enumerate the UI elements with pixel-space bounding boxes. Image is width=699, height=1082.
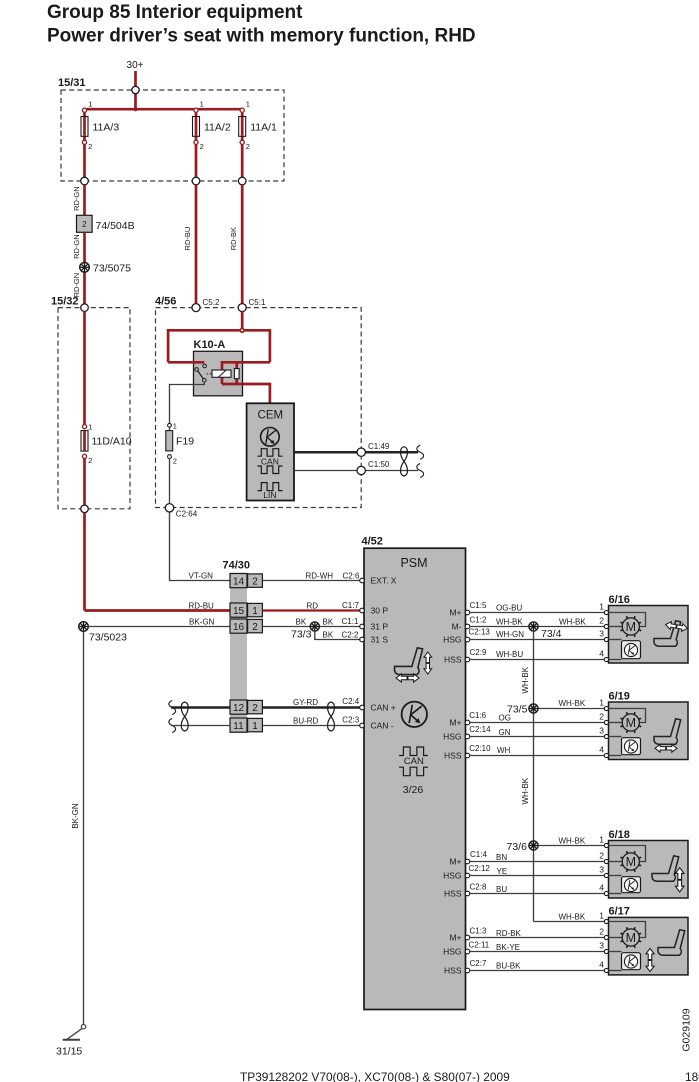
node 15/32 top edge	[81, 304, 89, 312]
svg-text:M-: M-	[452, 621, 462, 631]
seat motor module 6/16	[609, 606, 689, 664]
splice 73/5	[529, 704, 538, 713]
6/17 pin 3	[604, 949, 608, 953]
splice 73/5075	[80, 263, 90, 273]
svg-text:3: 3	[599, 940, 604, 950]
fuse F19	[166, 431, 173, 451]
wire BK-GN down to ground	[83, 631, 85, 1024]
connector 74/30 pin 12 mating square 2	[248, 700, 263, 713]
wire CAN- left	[171, 725, 230, 727]
wire red left branch down	[167, 329, 170, 362]
svg-text:31 P: 31 P	[371, 622, 389, 632]
svg-text:C2:64: C2:64	[176, 510, 198, 519]
svg-text:GN: GN	[499, 728, 511, 737]
wire OG-BU M+ to 6/16 pin1	[470, 612, 605, 614]
wire 30+ down to node	[134, 71, 137, 87]
PSM pin C1:7 30 P	[360, 608, 365, 613]
svg-text:73/3: 73/3	[291, 629, 312, 641]
6/18 pin 3	[604, 873, 608, 877]
svg-text:CAN: CAN	[404, 756, 424, 767]
wire GY-RD CAN+ right	[262, 706, 359, 709]
CEM LIN wave	[258, 483, 283, 491]
svg-text:RD-WH: RD-WH	[306, 572, 334, 581]
svg-text:GY-RD: GY-RD	[293, 698, 318, 707]
svg-text:WH-BU: WH-BU	[496, 650, 523, 659]
svg-text:16: 16	[233, 622, 245, 633]
wire RD inside 15/32	[83, 311, 86, 426]
6/17 pin 4	[604, 968, 608, 972]
6/18 pin 2	[604, 859, 608, 863]
svg-text:4: 4	[599, 648, 604, 658]
svg-text:1: 1	[599, 834, 604, 844]
svg-text:15: 15	[233, 606, 245, 617]
wire 6/19 pin4 to K box	[609, 755, 622, 757]
connector 74/30 pin 14 mating square 2	[248, 574, 263, 587]
svg-text:73/6: 73/6	[507, 841, 528, 853]
wire F19 pin1	[169, 427, 171, 430]
svg-text:VT-GN: VT-GN	[189, 572, 214, 581]
PSM pin C2:4 CAN +	[360, 705, 365, 710]
wire F19 to C2:64	[169, 459, 171, 504]
svg-text:RD-BK: RD-BK	[496, 929, 522, 938]
seat icon of 6/18	[652, 856, 679, 881]
svg-text:11D/A10: 11D/A10	[92, 436, 132, 448]
svg-text:WH: WH	[497, 746, 511, 755]
svg-text:C5:2: C5:2	[203, 298, 220, 307]
wire WH-BK 73/5 to 6/19 pin1	[538, 708, 604, 710]
svg-text:C1:6: C1:6	[469, 711, 486, 720]
splice 73/4	[529, 622, 538, 631]
wire 6/17 pin3 to K box	[609, 951, 622, 953]
svg-text:M: M	[626, 855, 636, 869]
splice 73/3	[310, 622, 319, 631]
svg-text:C1:1: C1:1	[342, 617, 359, 626]
svg-text:30+: 30+	[127, 60, 144, 71]
node C1:49	[357, 448, 365, 456]
svg-text:74/504B: 74/504B	[96, 220, 135, 232]
CEM CAN wave down	[258, 466, 283, 474]
junction on 4/56 bus	[240, 328, 244, 332]
svg-text:3: 3	[599, 725, 604, 735]
svg-text:BK: BK	[323, 631, 334, 640]
wire YE HSG to 6/18 pin3	[470, 875, 605, 877]
svg-text:4/56: 4/56	[155, 296, 176, 308]
wire RD-GN segment 1	[83, 185, 86, 216]
wire relay output to F19	[170, 382, 205, 424]
svg-text:2: 2	[200, 142, 204, 151]
svg-text:RD-BU: RD-BU	[189, 601, 215, 610]
connector 74/30 housing	[230, 573, 247, 733]
fuse 11D/A10	[81, 431, 88, 452]
svg-text:31 S: 31 S	[371, 635, 389, 645]
svg-text:C2:9: C2:9	[470, 648, 487, 657]
svg-text:HSG: HSG	[443, 946, 461, 956]
node C1:50	[357, 466, 365, 474]
svg-text:BU-RD: BU-RD	[293, 716, 319, 725]
wire red bus in 4/56	[168, 329, 270, 332]
relay coil	[212, 370, 231, 377]
svg-text:WH-BK: WH-BK	[521, 777, 530, 804]
wire RD-GN segment 3	[83, 272, 86, 304]
wire 6/16 pin4 to K box	[609, 659, 622, 661]
wire BK-YE HSG to 6/17 pin3	[470, 951, 605, 953]
svg-text:1: 1	[88, 100, 92, 109]
svg-text:BK-YE: BK-YE	[496, 943, 520, 952]
twisted pair right	[328, 702, 335, 731]
connector 74/30 pin 12 cell	[230, 700, 247, 714]
node at 15/31 top edge	[132, 86, 139, 93]
seat motor module 6/18	[609, 841, 689, 899]
adjust arrow of 6/17	[646, 948, 654, 971]
PSM K symbol	[402, 702, 427, 727]
svg-text:OG-BU: OG-BU	[496, 603, 522, 612]
motor circle	[622, 714, 639, 731]
svg-text:BN: BN	[496, 853, 507, 862]
relay K10-A	[194, 351, 243, 396]
wire 6/18 pin4 to K box	[609, 893, 622, 895]
connector 74/30 pin 14 cell	[230, 574, 247, 588]
svg-text:2: 2	[599, 711, 604, 721]
wire RD-BK M+ to 6/17 pin2	[470, 937, 605, 939]
K unit of 6/19	[622, 738, 641, 755]
svg-text:4: 4	[599, 744, 604, 754]
wire CEM CAN high C1:49	[294, 451, 418, 454]
svg-text:HSS: HSS	[444, 965, 462, 975]
twisted pair symbol right of CEM	[401, 447, 408, 476]
svg-text:C1:4: C1:4	[470, 850, 487, 859]
svg-text:WH-BK: WH-BK	[559, 836, 586, 845]
wire BK branch to 31S	[315, 631, 360, 639]
6/16 pin 2	[604, 624, 608, 628]
svg-text:1: 1	[252, 606, 258, 617]
svg-text:2: 2	[252, 622, 258, 633]
svg-text:HSS: HSS	[444, 654, 462, 664]
svg-text:C2:8: C2:8	[470, 883, 487, 892]
relay switch fixed contact pin	[203, 364, 207, 368]
PSM pin C2:3 CAN -	[360, 723, 365, 728]
svg-text:2: 2	[246, 142, 250, 151]
relay switch blade	[198, 371, 204, 380]
wire BU-BK HSS to 6/17 pin4	[470, 970, 605, 972]
CEM K symbol	[261, 428, 280, 447]
adjust arrow of 6/18	[675, 868, 684, 892]
6/19 pin 2	[604, 720, 608, 724]
svg-text:30 P: 30 P	[371, 606, 389, 616]
svg-text:HSG: HSG	[443, 731, 461, 741]
wire RD	[262, 609, 359, 611]
svg-text:3/26: 3/26	[403, 784, 424, 796]
splice 73/6	[529, 841, 538, 850]
svg-text:4: 4	[599, 882, 604, 892]
wire red coil loop top	[222, 361, 270, 364]
K unit of 6/17	[622, 953, 641, 970]
wire BK-GN to pin16	[88, 626, 230, 628]
fuse 11A/1	[239, 117, 246, 137]
6/16 pin 3	[604, 637, 608, 641]
K unit of 6/16	[622, 641, 641, 659]
6/19 pin 4	[604, 753, 608, 757]
PSM pin C2:2 31 S	[360, 637, 365, 642]
connector 74/30 pin 11 mating square 1	[248, 718, 263, 731]
twisted pair left	[181, 702, 188, 731]
6/19 motor supply loop	[609, 709, 646, 723]
svg-text:M+: M+	[449, 607, 461, 617]
PSM pin C2:6 EXT. X	[360, 578, 365, 583]
6/16 pin 1	[604, 610, 608, 614]
connector 74/30 pin 16 mating square 2	[248, 619, 263, 632]
wire RD from C5:1 down	[241, 312, 244, 331]
svg-text:6/16: 6/16	[609, 594, 630, 606]
PSM CAN wave down	[399, 767, 428, 776]
fuse 11A/2	[193, 117, 200, 137]
PSM seat vertical arrow	[424, 652, 432, 674]
wire RD-BK drop to C5:1	[241, 185, 244, 304]
svg-text:G029109: G029109	[681, 1008, 693, 1051]
svg-text:6/17: 6/17	[609, 906, 630, 918]
wire WH-BU HSS to 6/16 pin4	[470, 659, 605, 661]
connector 74/30 pin 15 cell	[230, 603, 247, 617]
svg-text:C2:12: C2:12	[469, 864, 491, 873]
6/16 pin 4	[604, 657, 608, 661]
wire RD-BU thick red to pin15	[83, 513, 86, 611]
svg-text:C2:3: C2:3	[342, 715, 359, 724]
6/18 pin 4	[604, 891, 608, 895]
wire WH-BK vertical chain	[533, 631, 535, 921]
seat motor module 6/19	[609, 702, 689, 760]
wire node down to bus	[134, 93, 137, 109]
node 15/31 bottom left	[81, 177, 89, 185]
wire RD below 11D/A10	[83, 458, 86, 505]
svg-text:M: M	[626, 716, 636, 730]
wire WH-BK 73/6 to 6/18 pin1	[538, 845, 604, 847]
wire VT-GN	[170, 512, 231, 581]
wire red resistor leg	[235, 361, 238, 384]
connector 74/30 pin 15 mating square 1	[248, 603, 263, 616]
wire WH-BK M- to 6/16 pin2	[470, 626, 605, 628]
svg-text:PSM: PSM	[400, 556, 427, 570]
svg-text:15/31: 15/31	[58, 77, 86, 89]
svg-text:2: 2	[252, 703, 258, 714]
wire red down to CEM	[269, 383, 272, 404]
svg-text:31/15: 31/15	[56, 1046, 82, 1058]
6/19 pin 1	[604, 706, 608, 710]
CEM unit 4/56 dashed outline	[156, 308, 362, 508]
svg-text:WH-BK: WH-BK	[559, 617, 586, 626]
svg-text:11: 11	[233, 721, 244, 732]
svg-text:RD-BU: RD-BU	[183, 227, 192, 251]
svg-text:BU-BK: BU-BK	[496, 962, 521, 971]
svg-text:RD-BK: RD-BK	[229, 227, 238, 250]
svg-text:1: 1	[252, 721, 258, 732]
wire through fuse 11A/1	[241, 109, 244, 181]
adjust arrow of 6/16	[665, 621, 688, 633]
svg-text:73/4: 73/4	[541, 628, 562, 640]
svg-text:2: 2	[599, 850, 604, 860]
6/17 pin 2	[604, 935, 608, 939]
svg-text:RD-GN: RD-GN	[72, 186, 81, 211]
seat icon of 6/19	[654, 719, 681, 744]
node 15/31 bottom mid	[192, 177, 200, 185]
wire BU HSS to 6/18 pin4	[470, 893, 605, 895]
svg-text:6/18: 6/18	[609, 829, 630, 841]
svg-text:CAN -: CAN -	[371, 721, 394, 731]
svg-text:73/5023: 73/5023	[89, 632, 127, 644]
splice 73/5023	[79, 622, 89, 632]
relay actuation dashed link	[207, 373, 212, 375]
6/18 pin 1	[604, 843, 608, 847]
K unit of 6/18	[622, 877, 641, 893]
svg-text:3: 3	[599, 628, 604, 638]
svg-text:4/52: 4/52	[362, 536, 383, 548]
svg-text:11A/2: 11A/2	[204, 122, 231, 134]
svg-text:M: M	[626, 931, 636, 945]
fusebox 15/32 dashed outline	[58, 308, 130, 509]
power seat module PSM 4/52	[364, 548, 466, 1009]
svg-text:CEM: CEM	[258, 410, 284, 422]
svg-text:1: 1	[88, 423, 92, 432]
svg-text:11A/1: 11A/1	[250, 122, 277, 134]
wire red supply bus	[85, 108, 243, 111]
svg-text:WH-BK: WH-BK	[496, 617, 523, 626]
svg-text:RD-GN: RD-GN	[72, 234, 81, 259]
svg-text:C2:7: C2:7	[470, 959, 487, 968]
wire BK to splice 73/3	[262, 626, 359, 628]
node C5:1	[238, 304, 246, 312]
svg-text:Group 85 Interior equipment: Group 85 Interior equipment	[47, 2, 303, 23]
svg-text:M: M	[626, 620, 636, 634]
wire CAN+ left	[171, 706, 230, 709]
svg-text:C1:5: C1:5	[470, 601, 487, 610]
svg-text:C2:14: C2:14	[469, 725, 491, 734]
svg-text:C1:3: C1:3	[470, 926, 487, 935]
svg-text:C1:7: C1:7	[342, 601, 359, 610]
svg-text:Power driver’s seat with memor: Power driver’s seat with memory function…	[47, 26, 476, 47]
node C5:2	[192, 304, 200, 312]
wire BN M+ to 6/18 pin2	[470, 861, 605, 863]
node C2:64	[165, 504, 173, 512]
svg-text:HSS: HSS	[444, 888, 462, 898]
wire WH-GN HSG to 6/16 pin3	[470, 639, 605, 641]
svg-text:74/30: 74/30	[223, 560, 251, 572]
CEM CAN wave up	[258, 449, 283, 457]
wire through fuse 11A/2	[195, 109, 198, 181]
svg-text:HSG: HSG	[443, 870, 461, 880]
wire WH-BK corner to 6/17 pin1	[534, 921, 605, 923]
svg-text:2: 2	[173, 456, 177, 465]
wire break C1:49	[417, 445, 424, 459]
svg-text:M+: M+	[449, 932, 461, 942]
svg-text:73/5075: 73/5075	[93, 263, 131, 275]
wire RD-BU drop to C5:2	[195, 185, 198, 304]
svg-text:TP39128202 V70(08-), XC70(08-): TP39128202 V70(08-), XC70(08-) & S80(07-…	[240, 1070, 510, 1082]
seat icon of 6/16	[654, 621, 681, 646]
ground 31/15	[81, 1025, 85, 1029]
wire GN HSG to 6/19 pin3	[470, 736, 605, 738]
fusebox 15/31 dashed outline	[61, 90, 284, 181]
svg-text:EXT. X: EXT. X	[371, 576, 397, 586]
svg-text:6/19: 6/19	[609, 690, 630, 702]
svg-text:HSG: HSG	[443, 634, 461, 644]
PSM seat icon	[394, 648, 422, 675]
svg-text:K10-A: K10-A	[194, 339, 226, 351]
svg-text:HSS: HSS	[444, 750, 462, 760]
wire break CAN- left	[169, 719, 176, 733]
wire red right branch down	[269, 329, 272, 362]
svg-text:C5:1: C5:1	[249, 298, 266, 307]
wire OG M+ to 6/19 pin2	[470, 722, 605, 724]
svg-text:RD-GN: RD-GN	[72, 273, 81, 298]
svg-text:2: 2	[82, 220, 87, 229]
svg-text:C2:2: C2:2	[342, 630, 359, 639]
svg-text:2: 2	[88, 142, 92, 151]
fuse 11A/3	[81, 117, 88, 137]
svg-text:WH-BK: WH-BK	[559, 913, 586, 922]
control module CEM	[247, 403, 294, 500]
motor circle	[622, 929, 639, 946]
svg-text:3: 3	[599, 864, 604, 874]
svg-text:CAN: CAN	[261, 456, 279, 466]
svg-text:1: 1	[599, 601, 604, 611]
svg-text:C1:50: C1:50	[368, 460, 390, 469]
wire 6/18 pin2 to motor	[609, 861, 623, 863]
wire WH HSS to 6/19 pin4	[470, 755, 605, 757]
svg-text:OG: OG	[499, 714, 511, 723]
svg-text:BU: BU	[496, 885, 507, 894]
svg-text:WH-BK: WH-BK	[559, 699, 586, 708]
adjust arrow of 6/19	[655, 744, 677, 752]
wire 6/16 pin3 to K box	[609, 639, 622, 641]
svg-text:2: 2	[599, 926, 604, 936]
connector 74/30 pin 16 cell	[230, 619, 247, 633]
node 15/32 bottom edge	[81, 505, 89, 513]
svg-text:LIN: LIN	[263, 490, 276, 500]
motor circle	[622, 853, 639, 870]
wire CEM CAN low C1:50	[294, 470, 418, 472]
wire red feed into relay switch	[168, 361, 204, 364]
svg-text:1: 1	[200, 100, 204, 109]
6/17 motor supply loop	[609, 922, 646, 938]
svg-text:2: 2	[88, 456, 92, 465]
svg-text:WH-GN: WH-GN	[496, 630, 524, 639]
svg-text:C2:6: C2:6	[343, 572, 360, 581]
svg-text:11A/3: 11A/3	[93, 122, 120, 134]
wire break C1:50	[417, 464, 424, 478]
wire 6/17 pin4 to K box	[609, 970, 622, 972]
svg-text:RD: RD	[307, 601, 319, 610]
seat icon of 6/17	[658, 930, 685, 955]
wire red coil loop bottom	[222, 383, 270, 386]
relay switch pivot pin	[195, 368, 199, 372]
svg-text:1: 1	[246, 100, 250, 109]
wire RD-GN segment 2	[83, 232, 86, 262]
junction dot on bus	[134, 107, 138, 111]
wire through fuse 11A/3	[83, 109, 86, 181]
node 15/31 bottom right	[238, 177, 246, 185]
svg-text:1: 1	[599, 910, 604, 920]
wire 6/17 pin2 to motor	[609, 937, 623, 939]
svg-text:C2:10: C2:10	[469, 744, 491, 753]
6/19 pin 3	[604, 734, 608, 738]
motor circle	[622, 618, 639, 635]
svg-text:BK-GN: BK-GN	[189, 617, 215, 626]
svg-text:BK: BK	[296, 617, 307, 626]
svg-text:2: 2	[599, 615, 604, 625]
svg-text:BK: BK	[323, 617, 334, 626]
svg-text:YE: YE	[497, 867, 508, 876]
6/16 motor supply loop	[609, 613, 646, 627]
svg-text:C2:4: C2:4	[342, 697, 359, 706]
svg-text:2: 2	[252, 576, 258, 587]
